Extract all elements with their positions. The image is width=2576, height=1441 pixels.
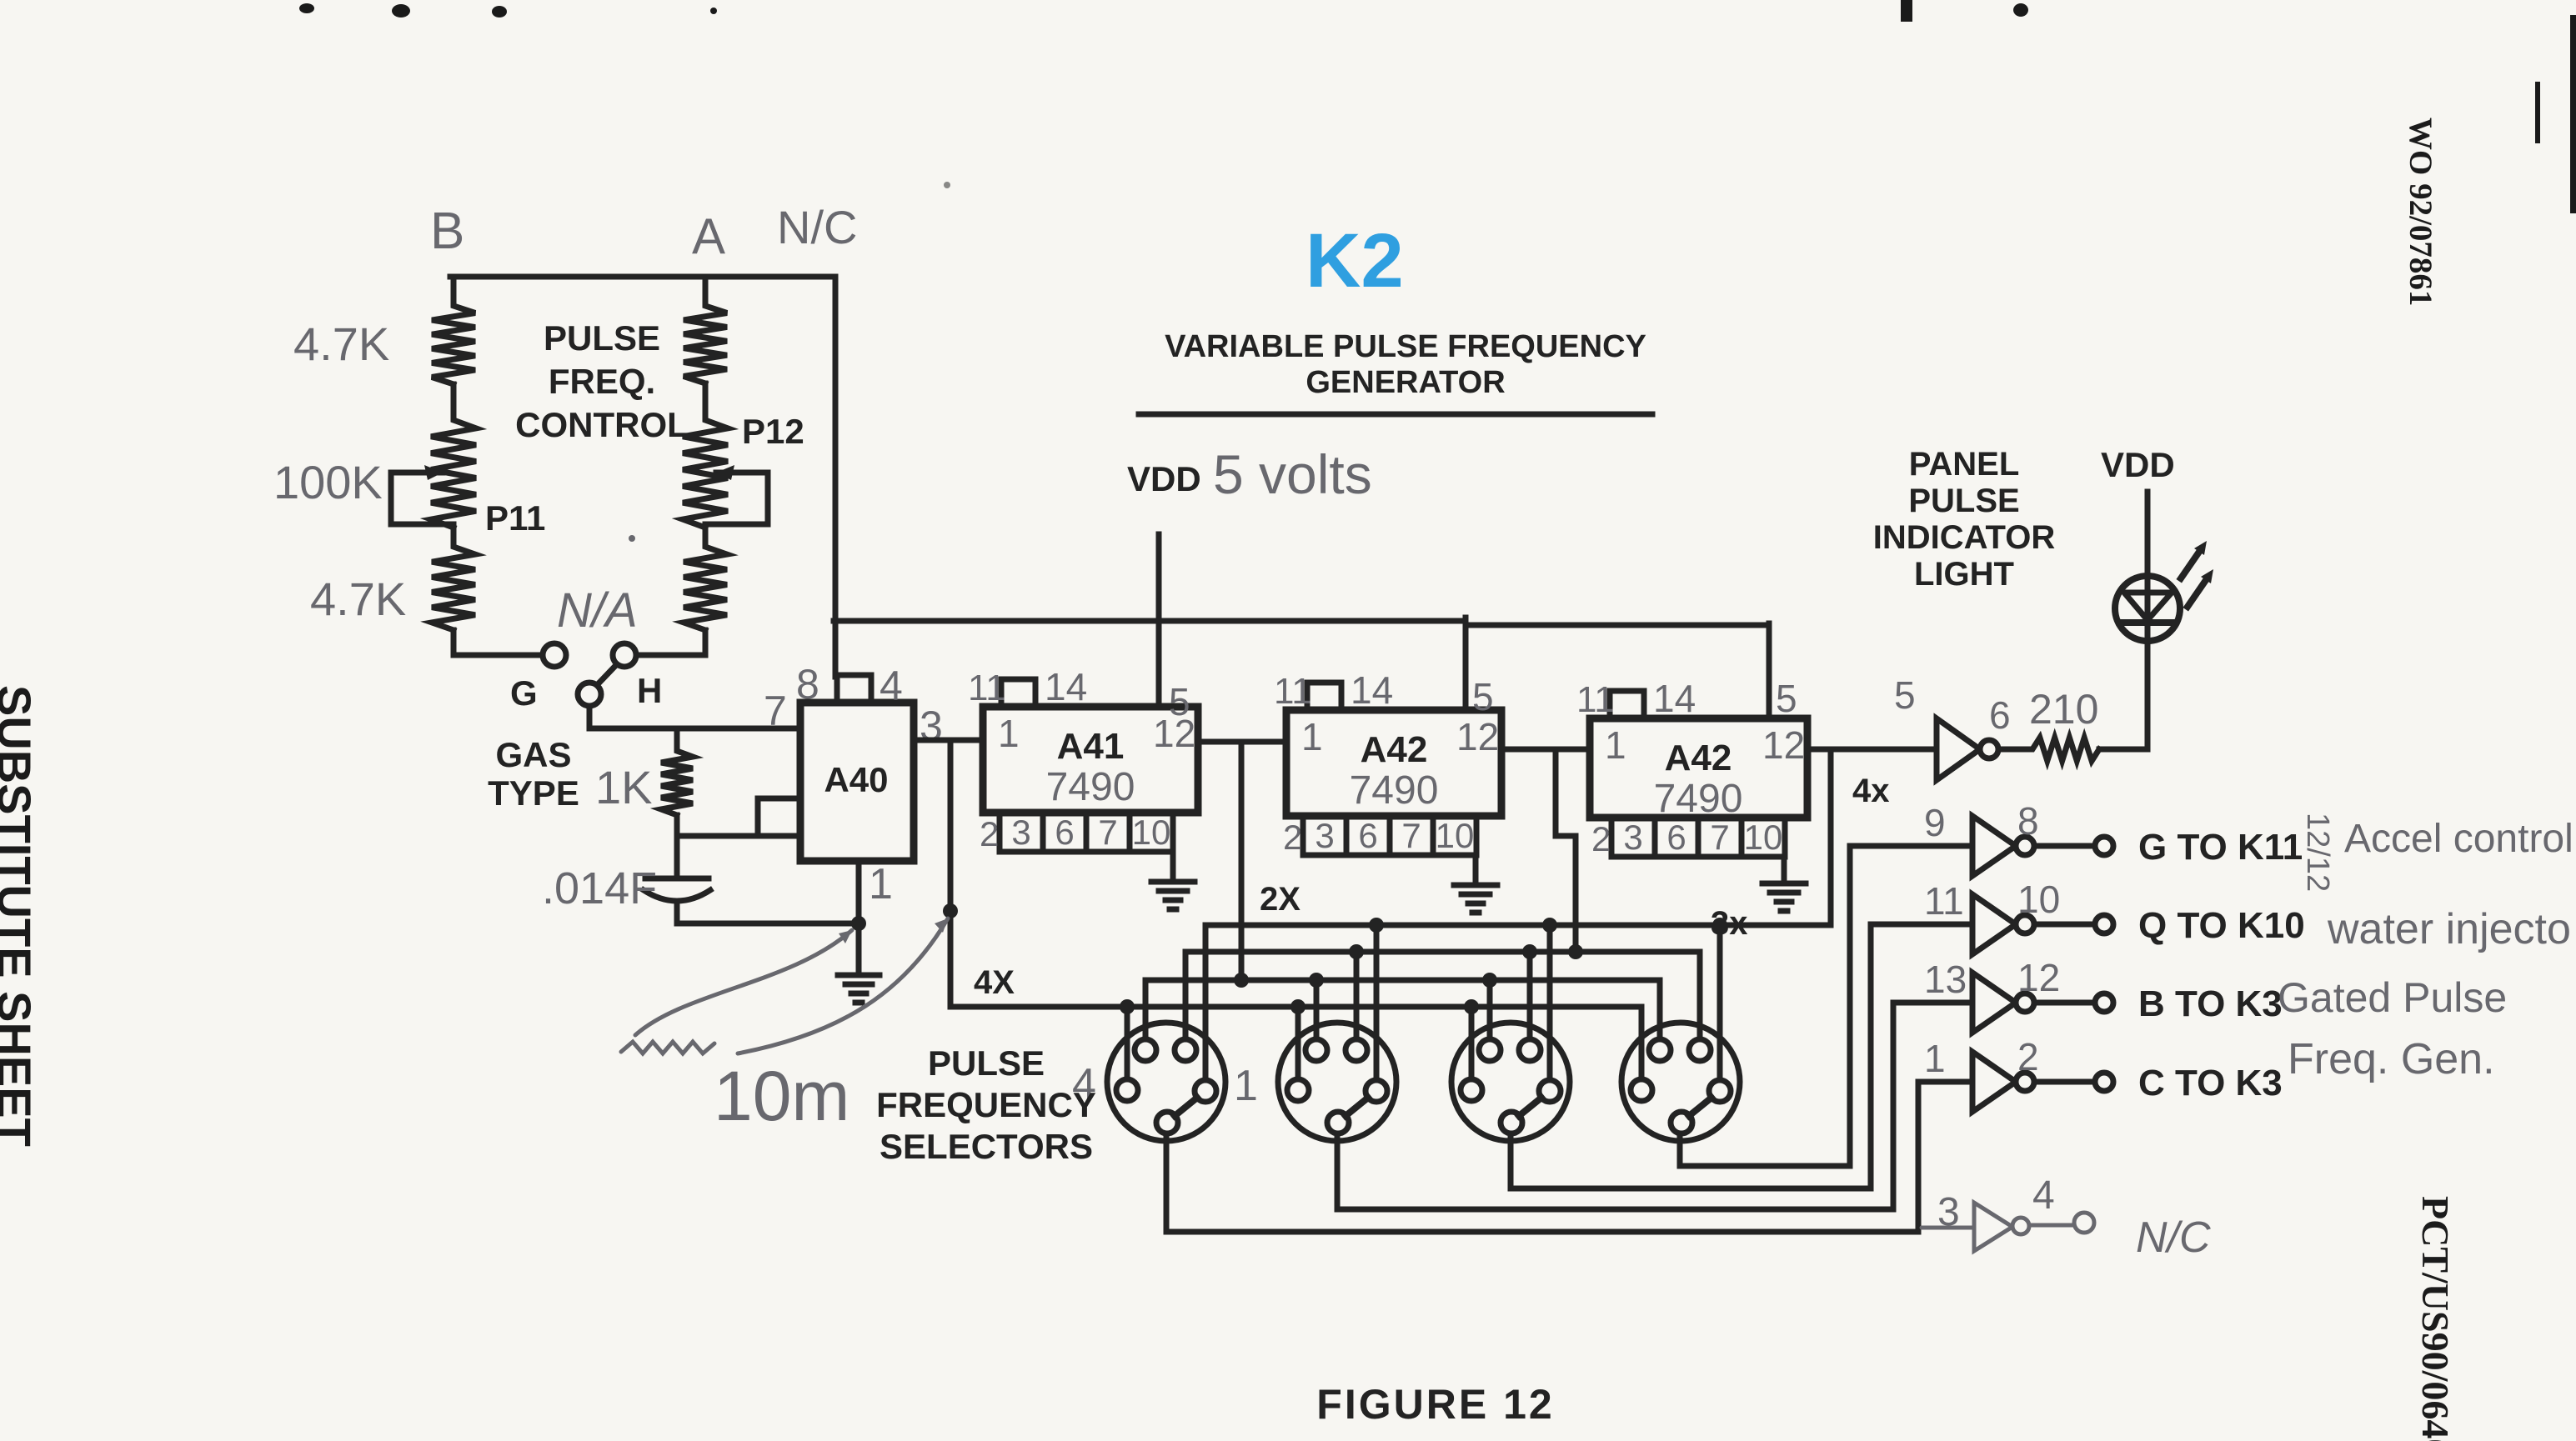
svg-text:10: 10	[2017, 878, 2060, 921]
svg-text:3: 3	[1937, 1190, 1960, 1234]
pencil inverter N/C pins 3-4	[1922, 1226, 1974, 1230]
svg-text:1: 1	[998, 712, 1020, 755]
svg-text:10: 10	[1132, 813, 1171, 852]
svg-text:11: 11	[1924, 879, 1964, 923]
svg-text:1: 1	[1605, 723, 1626, 767]
wire A41 pin12 to A42a pin1	[1198, 739, 1286, 745]
svg-text:11: 11	[1576, 679, 1615, 720]
row4 bus 4X net	[950, 1007, 1641, 1079]
svg-text:1: 1	[1301, 715, 1323, 758]
svg-text:1: 1	[869, 860, 893, 908]
svg-text:7: 7	[1401, 816, 1421, 855]
svg-text:N/C: N/C	[2136, 1213, 2211, 1262]
scan artifacts top	[299, 0, 2576, 213]
IC A42 second 7490	[1590, 718, 1807, 818]
svg-text:10: 10	[1744, 818, 1783, 857]
wire N/C drop to A40 pin8	[833, 277, 839, 677]
svg-text:2: 2	[980, 814, 999, 853]
wire 3x drop with jog	[1556, 749, 1576, 952]
svg-text:Freq. Gen.: Freq. Gen.	[2288, 1035, 2495, 1083]
svg-text:3: 3	[1315, 816, 1334, 855]
svg-text:GENERATOR: GENERATOR	[1306, 365, 1505, 400]
rotary selector S1	[1107, 1023, 1225, 1141]
IC A40	[800, 703, 914, 861]
potentiometer P11 100K	[431, 384, 476, 528]
inverter B TO K3	[1972, 973, 2016, 1033]
switch gas-type contact H	[613, 643, 636, 667]
wire capacitor to A40 pin1	[677, 921, 859, 927]
wire A40 pin3 to A41 pin1	[914, 738, 983, 743]
A42a pin5 lead	[1463, 618, 1469, 710]
svg-text:7: 7	[1098, 813, 1117, 852]
svg-text:6: 6	[1989, 693, 2011, 737]
svg-text:A40: A40	[824, 760, 888, 799]
svg-text:VARIABLE PULSE FREQUENCY: VARIABLE PULSE FREQUENCY	[1165, 329, 1646, 364]
svg-text:6: 6	[1666, 818, 1686, 857]
A42b pin5 lead	[1767, 623, 1772, 718]
pencil squiggle 10m	[621, 1042, 714, 1053]
svg-text:A42: A42	[1361, 729, 1428, 770]
wire 4x drop	[1828, 749, 1834, 925]
svg-text:A41: A41	[1057, 726, 1125, 767]
rotary selector S4	[1621, 1023, 1740, 1141]
svg-text:11: 11	[1274, 671, 1312, 712]
svg-text:H: H	[637, 671, 662, 710]
LED panel indicator	[2145, 492, 2151, 749]
svg-text:3: 3	[1011, 813, 1030, 852]
svg-text:FIGURE 12: FIGURE 12	[1316, 1381, 1554, 1428]
pencil arrow curve right	[738, 918, 948, 1053]
svg-text:N/C: N/C	[777, 201, 857, 253]
svg-text:12: 12	[1762, 723, 1805, 767]
svg-text:WO 92/07861: WO 92/07861	[2403, 118, 2438, 306]
VDD supply line	[1156, 534, 1162, 707]
svg-text:7490: 7490	[1654, 777, 1743, 821]
svg-text:A42: A42	[1665, 738, 1732, 778]
svg-text:GAS: GAS	[495, 735, 571, 774]
svg-text:2X: 2X	[1260, 881, 1301, 918]
resistor 210	[1998, 738, 2148, 761]
svg-text:SELECTORS: SELECTORS	[880, 1127, 1093, 1166]
inverter G TO K11	[1972, 816, 2016, 876]
svg-text:.014F: .014F	[542, 863, 657, 913]
svg-text:1: 1	[1234, 1062, 1258, 1110]
wire A42b pin12 to inverter U1	[1807, 747, 1937, 753]
svg-text:PANEL: PANEL	[1909, 446, 2020, 483]
wire pivot to A40 pin7	[589, 706, 800, 728]
resistor R1 4.7K upper-left	[432, 277, 475, 384]
svg-text:VDD: VDD	[2101, 445, 2175, 484]
svg-text:B TO K3: B TO K3	[2138, 983, 2283, 1024]
wire S2 wiper to inverter B input	[1337, 1003, 1972, 1209]
svg-text:Accel control: Accel control	[2344, 817, 2573, 861]
svg-text:210: 210	[2029, 686, 2098, 733]
svg-text:4x: 4x	[1852, 773, 1890, 809]
svg-text:FREQ.: FREQ.	[549, 362, 655, 401]
svg-text:9: 9	[1924, 801, 1946, 844]
wire A42a pin12 to A42b pin1	[1501, 747, 1590, 753]
wire S3 wiper to inverter Q input	[1511, 924, 1972, 1188]
svg-text:1K: 1K	[595, 761, 653, 813]
svg-text:P11: P11	[485, 498, 545, 538]
inverter C TO K3	[1972, 1052, 2016, 1112]
svg-text:K2: K2	[1306, 218, 1404, 303]
wire top node B-A-N/C	[450, 274, 835, 280]
svg-text:P12: P12	[742, 412, 804, 451]
ground under A42b	[1782, 857, 1787, 883]
svg-text:10m: 10m	[714, 1057, 849, 1135]
svg-text:3: 3	[1623, 818, 1642, 857]
svg-text:14: 14	[1653, 677, 1696, 720]
svg-text:LIGHT: LIGHT	[1914, 556, 2014, 593]
svg-text:G TO K11: G TO K11	[2138, 827, 2303, 868]
svg-text:5: 5	[1472, 675, 1494, 718]
svg-text:14: 14	[1045, 665, 1087, 708]
svg-text:G: G	[510, 673, 538, 713]
svg-text:7: 7	[764, 688, 787, 734]
svg-text:VDD: VDD	[1127, 459, 1201, 498]
svg-text:4X: 4X	[974, 964, 1015, 1001]
svg-text:10: 10	[1436, 816, 1475, 855]
wire 1K to A40 left tab	[677, 798, 800, 836]
ground under A42a	[1473, 856, 1479, 885]
svg-text:1: 1	[1924, 1037, 1946, 1080]
svg-text:FREQUENCY: FREQUENCY	[876, 1085, 1096, 1124]
resistor R3 4.7K upper-right	[684, 277, 727, 383]
A40 pin1 lead	[856, 861, 862, 975]
ground under A40	[838, 973, 880, 978]
potentiometer P12	[683, 383, 728, 528]
svg-text:4: 4	[2032, 1173, 2055, 1218]
row3 bus 2X net	[1145, 980, 1660, 1042]
capacitor C .014F	[645, 836, 709, 923]
pencil arrow curve left	[635, 930, 852, 1035]
svg-text:5: 5	[1776, 677, 1797, 720]
resistor R4 lower-right	[636, 528, 727, 655]
wire S4 wiper to inverter G input	[1680, 846, 1972, 1166]
resistor R2 4.7K lower-left	[432, 528, 475, 655]
wire S1 wiper to inverter C input	[1166, 1082, 1972, 1232]
svg-text:13: 13	[1924, 958, 1967, 1001]
svg-text:2: 2	[1283, 818, 1302, 857]
svg-text:SUBSTITUTE SHEET: SUBSTITUTE SHEET	[0, 685, 41, 1147]
svg-text:B: B	[430, 203, 464, 260]
row1 bus 4x net	[1205, 925, 1831, 1080]
svg-text:5: 5	[1894, 673, 1916, 717]
svg-text:8: 8	[2017, 799, 2039, 843]
svg-text:2: 2	[2017, 1035, 2039, 1078]
svg-text:2: 2	[1591, 819, 1611, 858]
svg-text:6: 6	[1358, 816, 1377, 855]
wire 2X drop	[1239, 742, 1245, 980]
IC A42 first 7490	[1286, 710, 1501, 816]
svg-text:100K: 100K	[273, 456, 383, 508]
svg-text:4.7K: 4.7K	[310, 573, 406, 625]
svg-text:PCT/US90/06407: PCT/US90/06407	[2414, 1196, 2457, 1441]
svg-text:water injecto: water injecto	[2327, 905, 2571, 953]
svg-text:C TO K3: C TO K3	[2138, 1063, 2283, 1103]
svg-text:PULSE: PULSE	[1908, 483, 2019, 519]
svg-text:5: 5	[1169, 680, 1190, 723]
svg-text:N/A: N/A	[557, 583, 638, 638]
svg-text:Q TO K10: Q TO K10	[2138, 905, 2305, 946]
svg-text:7490: 7490	[1046, 765, 1135, 809]
svg-text:TYPE: TYPE	[488, 773, 579, 813]
svg-text:12: 12	[2017, 956, 2060, 999]
svg-text:INDICATOR: INDICATOR	[1873, 519, 2056, 556]
svg-text:PULSE: PULSE	[544, 318, 660, 358]
svg-text:7490: 7490	[1350, 768, 1439, 813]
svg-text:8: 8	[796, 661, 819, 708]
svg-text:14: 14	[1351, 668, 1393, 712]
wire 4X drop from pin3	[948, 740, 954, 1007]
svg-text:6: 6	[1055, 813, 1074, 852]
svg-text:12/12: 12/12	[2300, 813, 2335, 892]
svg-text:11: 11	[968, 668, 1006, 708]
inverter U1 pins 5-6	[1937, 718, 1980, 780]
svg-text:Gated Pulse: Gated Pulse	[2278, 974, 2507, 1021]
ground under A41	[1170, 851, 1176, 882]
resistor 1K	[661, 728, 693, 836]
rotary selector S3	[1451, 1023, 1570, 1141]
wire bottom-left to switch	[454, 630, 542, 655]
IC A41 7490	[983, 707, 1198, 813]
switch gas-type pivot and arm	[578, 683, 601, 706]
row2 bus 3x net	[1185, 952, 1700, 1043]
svg-text:7: 7	[1710, 818, 1729, 857]
svg-text:CONTROL: CONTROL	[515, 405, 689, 444]
svg-text:5 volts: 5 volts	[1213, 443, 1372, 505]
switch gas-type contact G	[543, 643, 566, 667]
svg-text:PULSE: PULSE	[928, 1043, 1045, 1083]
svg-text:A: A	[692, 208, 725, 264]
inverter Q TO K10	[1972, 894, 2016, 954]
svg-text:4.7K: 4.7K	[293, 318, 389, 370]
VDD bus	[834, 621, 1769, 625]
svg-text:12: 12	[1456, 715, 1499, 758]
rotary selector S2	[1278, 1023, 1396, 1141]
svg-text:4: 4	[880, 663, 903, 709]
